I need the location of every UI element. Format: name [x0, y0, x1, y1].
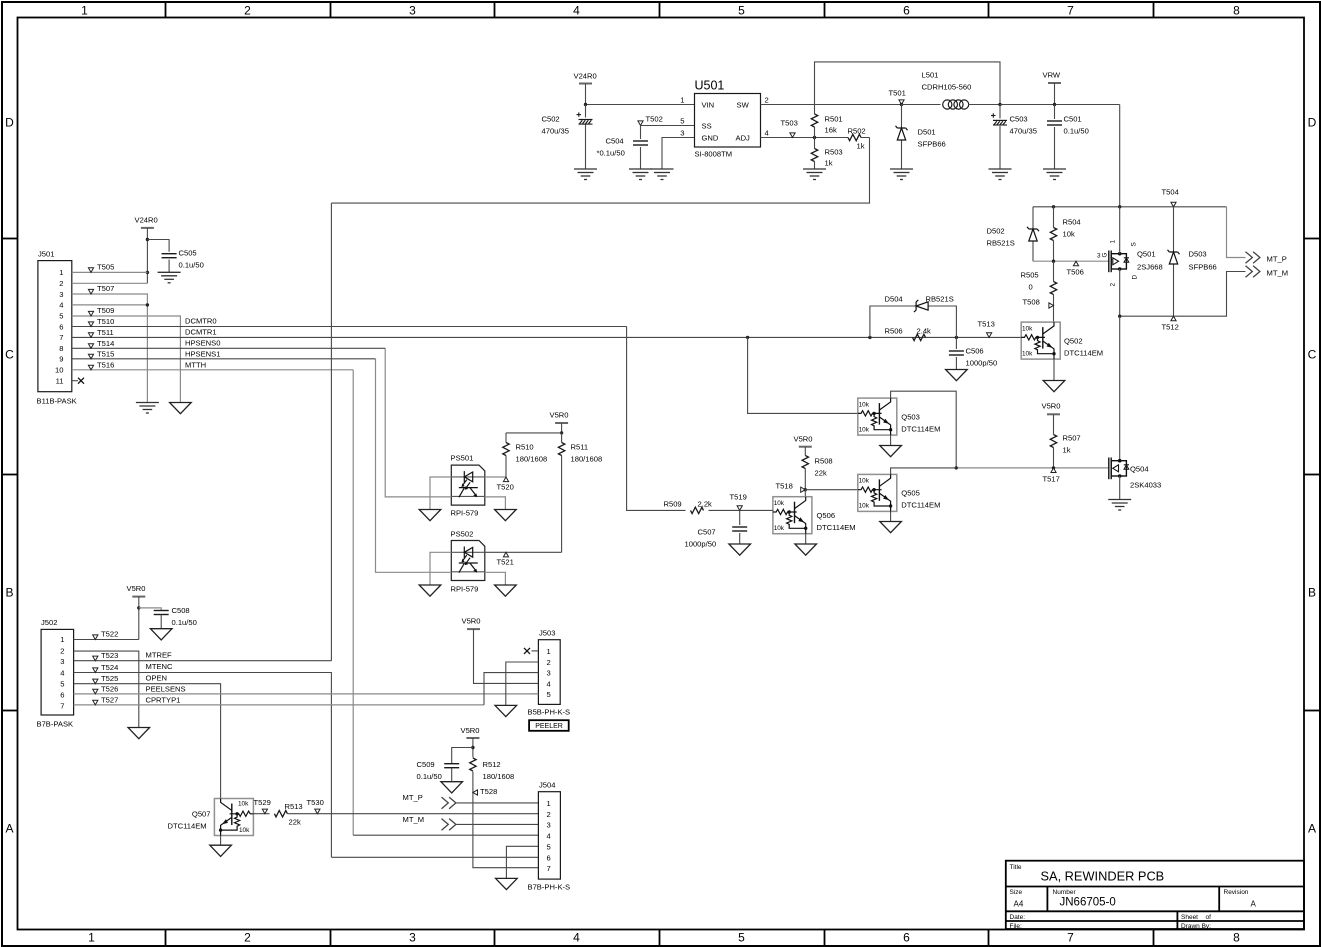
ground [629, 169, 652, 180]
resistor R506 [913, 334, 926, 340]
svg-text:22k: 22k [289, 818, 301, 827]
test point T528 [473, 790, 478, 795]
wire Q503 collector [891, 391, 957, 468]
svg-text:V24R0: V24R0 [135, 216, 158, 225]
svg-text:D: D [1132, 275, 1139, 280]
test point T519 [737, 506, 742, 511]
wire J503 pin3 CPRTYP1 [484, 673, 538, 705]
junction [1118, 205, 1121, 208]
junction [804, 488, 807, 491]
wire R502 to MTREF run [331, 138, 869, 204]
PEELER label box [529, 720, 569, 731]
resistor R508 [804, 447, 806, 490]
svg-text:T507: T507 [97, 284, 114, 293]
svg-text:OPEN: OPEN [146, 674, 168, 683]
svg-text:3: 3 [409, 4, 416, 18]
node T501/D501 [900, 103, 903, 106]
svg-text:0.1u/50: 0.1u/50 [1064, 127, 1089, 136]
svg-text:DTC114EM: DTC114EM [901, 501, 940, 510]
svg-text:MTREF: MTREF [146, 651, 173, 660]
resistor R512 [470, 758, 476, 771]
svg-text:R505: R505 [1021, 271, 1039, 280]
ground [1043, 169, 1066, 180]
svg-text:R512: R512 [483, 760, 501, 769]
svg-text:SA, REWINDER PCB: SA, REWINDER PCB [1041, 869, 1165, 884]
capacitor C506 [955, 337, 957, 369]
diode D503 [1173, 207, 1175, 316]
capacitor C505 [147, 240, 169, 273]
svg-text:R509: R509 [664, 500, 682, 509]
wire J501 pin5 to triangle ground [72, 316, 181, 403]
svg-text:R504: R504 [1063, 218, 1081, 227]
connector J501 [38, 261, 72, 392]
svg-text:MT_M: MT_M [403, 815, 425, 824]
node MT_P chevron [442, 797, 456, 809]
svg-text:C502: C502 [542, 115, 560, 124]
svg-text:A: A [5, 822, 13, 836]
wire VRW down to motor section [1119, 105, 1121, 207]
test point T502 [638, 121, 643, 126]
test point T517 [1051, 468, 1056, 473]
wire Q502 emitter to ground [1053, 359, 1055, 380]
wire V24R0 to VIN [586, 84, 695, 105]
wire J501 pin4 [72, 304, 148, 306]
svg-text:MTENC: MTENC [146, 662, 174, 671]
svg-text:T523: T523 [101, 651, 118, 660]
svg-text:Sheet: Sheet [1181, 914, 1198, 921]
wire ADJ [761, 137, 843, 139]
SECTION: titleblock [1006, 861, 1304, 930]
ground [989, 169, 1012, 180]
svg-text:D: D [1308, 116, 1317, 130]
svg-text:Title: Title [1010, 864, 1022, 871]
node C503 [998, 103, 1001, 106]
svg-text:2: 2 [1110, 283, 1117, 287]
svg-text:7: 7 [547, 864, 551, 873]
junction [1118, 315, 1121, 318]
svg-text:6: 6 [547, 854, 551, 863]
svg-text:of: of [1206, 914, 1212, 921]
svg-text:2: 2 [244, 931, 251, 945]
svg-text:1: 1 [547, 799, 551, 808]
junction [868, 336, 871, 339]
connector J502 [41, 629, 74, 715]
svg-text:DTC114EM: DTC114EM [168, 822, 207, 831]
svg-text:A4: A4 [1014, 900, 1024, 909]
svg-text:HPSENS0: HPSENS0 [185, 339, 220, 348]
transistor Q501 [1097, 207, 1163, 316]
svg-text:T521: T521 [497, 558, 514, 567]
svg-text:1: 1 [547, 647, 551, 656]
svg-text:RPI-579: RPI-579 [451, 509, 479, 518]
svg-text:T502: T502 [646, 115, 663, 124]
svg-text:B7B-PH-K-S: B7B-PH-K-S [528, 883, 571, 892]
svg-text:R503: R503 [825, 148, 843, 157]
svg-text:Q503: Q503 [901, 413, 920, 422]
svg-text:5: 5 [680, 117, 684, 126]
svg-text:PS501: PS501 [451, 454, 474, 463]
wire Q505 collector [891, 468, 957, 475]
svg-text:7: 7 [60, 702, 64, 711]
svg-text:HPSENS1: HPSENS1 [185, 350, 220, 359]
SECTION: photo [376, 348, 603, 596]
capacitor C504 [633, 141, 648, 145]
svg-text:V24R0: V24R0 [574, 72, 597, 81]
svg-text:T506: T506 [1067, 268, 1084, 277]
svg-text:J501: J501 [38, 250, 54, 259]
svg-text:2: 2 [60, 647, 64, 656]
wire feedback sense [815, 62, 1001, 105]
junction [146, 271, 149, 274]
junction [560, 431, 563, 434]
power rail V5R0 above R510/R511 [555, 422, 568, 424]
svg-text:Date:: Date: [1010, 914, 1026, 921]
wire DCMTR0 pin6 [72, 326, 627, 328]
svg-text:T501: T501 [889, 89, 906, 98]
svg-text:J504: J504 [539, 781, 555, 790]
resistor R511 [561, 433, 563, 552]
wire MTENC to J504 pin6 [331, 856, 538, 858]
wire J502 pin1 [74, 639, 139, 641]
svg-text:1000p/50: 1000p/50 [966, 359, 998, 368]
svg-text:B: B [1308, 586, 1316, 600]
svg-text:5: 5 [547, 690, 551, 699]
svg-text:PEELSENS: PEELSENS [146, 685, 186, 694]
svg-text:T511: T511 [97, 328, 114, 337]
svg-text:1: 1 [81, 4, 88, 18]
svg-text:S: S [1131, 242, 1138, 246]
connector J504 [538, 792, 560, 879]
svg-text:10k: 10k [774, 525, 785, 532]
wire C502 leads [585, 105, 587, 170]
svg-text:3: 3 [409, 931, 416, 945]
wire R510/R511 top [506, 432, 562, 434]
wire J502 pin2 to ground [74, 651, 139, 727]
svg-text:1k: 1k [1063, 446, 1071, 455]
svg-text:5: 5 [59, 312, 63, 321]
svg-text:T519: T519 [730, 493, 747, 502]
svg-text:10k: 10k [774, 500, 785, 507]
capacitor C501 [1054, 105, 1056, 170]
svg-text:2: 2 [244, 4, 251, 18]
svg-text:2.4k: 2.4k [917, 327, 932, 336]
junction [955, 466, 958, 469]
wire Q506 emitter [805, 534, 807, 544]
junction [146, 303, 149, 306]
svg-text:RB521S: RB521S [987, 239, 1015, 248]
svg-text:7: 7 [1067, 4, 1074, 18]
wire Q507 base to T529 [253, 813, 269, 815]
svg-text:0.1u/50: 0.1u/50 [172, 618, 197, 627]
capacitor C503 [999, 105, 1001, 170]
svg-text:SW: SW [737, 101, 750, 110]
wire HPSENS0 pin8 [72, 347, 385, 349]
wire DCMTR1 pin7 [72, 336, 627, 338]
svg-text:D504: D504 [885, 295, 903, 304]
svg-text:PEELER: PEELER [535, 723, 563, 730]
wire C504 leads [640, 126, 642, 170]
ground [574, 169, 597, 180]
svg-text:2.2k: 2.2k [698, 500, 713, 509]
svg-text:5: 5 [738, 931, 745, 945]
svg-text:*0.1u/50: *0.1u/50 [597, 149, 625, 158]
svg-text:1: 1 [59, 268, 63, 277]
wire MT_P branch [1227, 207, 1246, 258]
svg-text:10k: 10k [1022, 326, 1033, 333]
wire T518 down to Q506 collector [804, 490, 806, 497]
junction [1052, 205, 1055, 208]
capacitor C502 [577, 112, 593, 124]
test point T512 [1171, 316, 1176, 321]
wire MTENC pin4 [74, 673, 332, 858]
svg-text:T515: T515 [97, 350, 114, 359]
svg-text:3: 3 [547, 669, 551, 678]
wire gate row to Q504 [956, 467, 1109, 469]
svg-text:10k: 10k [1063, 230, 1075, 239]
svg-text:MT_P: MT_P [1267, 255, 1287, 264]
svg-text:C506: C506 [966, 347, 984, 356]
svg-text:T512: T512 [1162, 323, 1179, 332]
svg-text:Drawn By:: Drawn By: [1181, 923, 1211, 930]
svg-text:1: 1 [60, 635, 64, 644]
svg-text:G: G [1102, 253, 1109, 258]
svg-text:T529: T529 [254, 798, 271, 807]
svg-text:File:: File: [1010, 923, 1022, 930]
diode D504 [914, 300, 928, 312]
transistor Q503 [858, 398, 897, 435]
photo interrupter PS501 [451, 465, 485, 505]
wire GND pin [662, 138, 695, 170]
svg-text:B7B-PASK: B7B-PASK [37, 720, 74, 729]
svg-text:10k: 10k [859, 503, 870, 510]
svg-text:J502: J502 [41, 618, 57, 627]
test point T530 [315, 809, 320, 814]
wire rail to VRW [1000, 104, 1120, 106]
wire HPSENS0 entry [385, 348, 451, 497]
SECTION: motor [627, 188, 1288, 511]
svg-text:C503: C503 [1010, 115, 1028, 124]
wire PS501 bottom-right to ground [485, 497, 506, 510]
ground [651, 169, 674, 180]
svg-text:V5R0: V5R0 [461, 726, 480, 735]
svg-text:RPI-579: RPI-579 [451, 585, 479, 594]
svg-text:2: 2 [547, 810, 551, 819]
svg-text:6: 6 [60, 691, 64, 700]
test point T504 [1171, 202, 1176, 207]
capacitor C507 [739, 510, 741, 544]
svg-text:9: 9 [59, 355, 63, 364]
svg-text:T528: T528 [480, 787, 497, 796]
svg-text:MTTH: MTTH [185, 361, 206, 370]
svg-text:MT_M: MT_M [1267, 269, 1289, 278]
svg-text:0.1u/50: 0.1u/50 [417, 772, 442, 781]
wire Q505 emitter [890, 511, 892, 521]
svg-text:6: 6 [903, 4, 910, 18]
svg-text:Q506: Q506 [817, 511, 836, 520]
wire Q503 emitter [890, 435, 892, 445]
wire HPSENS1 entry [376, 359, 452, 573]
junction [1052, 466, 1055, 469]
SECTION: midtrans [627, 327, 958, 556]
svg-text:10k: 10k [859, 427, 870, 434]
svg-text:11: 11 [56, 377, 64, 386]
regulator IC U501 [680, 79, 768, 159]
svg-text:Q502: Q502 [1064, 337, 1083, 346]
SECTION: j502 [37, 584, 539, 857]
svg-text:1: 1 [1110, 240, 1117, 244]
wire OPEN pin5 [74, 684, 221, 799]
svg-text:5: 5 [738, 4, 745, 18]
node V24R0/C502 [584, 103, 587, 106]
svg-text:22k: 22k [815, 469, 827, 478]
svg-text:DCMTR0: DCMTR0 [185, 317, 217, 326]
svg-text:R513: R513 [285, 802, 303, 811]
svg-text:V5R0: V5R0 [127, 584, 146, 593]
junction [137, 606, 140, 609]
svg-text:8: 8 [59, 344, 63, 353]
svg-text:2SJ668: 2SJ668 [1137, 263, 1163, 272]
connector J503 [538, 640, 560, 705]
wire J501 pin3 [72, 294, 148, 403]
svg-text:VRW: VRW [1043, 71, 1061, 80]
power rail V5R0 at R507 [1047, 413, 1060, 415]
svg-text:SFPB66: SFPB66 [1189, 263, 1217, 272]
wire bottom motor rail [1120, 272, 1246, 317]
svg-text:T524: T524 [101, 663, 118, 672]
svg-text:SI-8008TM: SI-8008TM [695, 150, 733, 159]
node ADJ/R501/R503 [813, 136, 816, 139]
test point T520 [503, 477, 508, 482]
svg-text:CDRH105-560: CDRH105-560 [922, 83, 972, 92]
wire PS501 top-left to ground [430, 477, 451, 510]
svg-text:4: 4 [573, 931, 580, 945]
power rail V5R0 at J502 [132, 596, 145, 598]
svg-text:10k: 10k [239, 827, 250, 834]
svg-text:3: 3 [60, 657, 64, 666]
svg-text:1000p/50: 1000p/50 [685, 540, 717, 549]
svg-text:10k: 10k [859, 478, 870, 485]
svg-text:DTC114EM: DTC114EM [1064, 349, 1103, 358]
svg-text:4: 4 [60, 669, 64, 678]
svg-text:2: 2 [547, 658, 551, 667]
svg-text:B: B [5, 586, 13, 600]
svg-text:5: 5 [60, 680, 64, 689]
test point T521 [503, 552, 508, 557]
svg-text:VIN: VIN [702, 101, 715, 110]
resistor R509 [691, 507, 704, 513]
power rail V5R0 at J503 [467, 628, 480, 630]
svg-text:C505: C505 [179, 249, 197, 258]
wire PS502 top-left to ground [430, 552, 451, 585]
svg-text:R511: R511 [571, 443, 589, 452]
svg-text:4: 4 [547, 832, 551, 841]
svg-text:PS502: PS502 [451, 530, 474, 539]
svg-text:GND: GND [702, 134, 719, 143]
wire HPSENS1 pin9 [72, 358, 376, 360]
node MT_P chevron [1246, 252, 1260, 264]
svg-text:180/1608: 180/1608 [571, 455, 603, 464]
inductor L501 [902, 104, 941, 106]
svg-text:5: 5 [547, 843, 551, 852]
resistor R513 [274, 811, 287, 817]
svg-text:2: 2 [59, 279, 63, 288]
test point T529 [262, 809, 267, 814]
resistor R504 [1053, 207, 1055, 261]
resistor R502 [843, 137, 870, 139]
svg-text:T526: T526 [101, 685, 118, 694]
wire gate row [1033, 260, 1109, 262]
power rail V5R0 at R508 [799, 446, 812, 448]
svg-text:Q505: Q505 [901, 489, 920, 498]
svg-text:4: 4 [547, 680, 551, 689]
svg-text:JN66705-0: JN66705-0 [1060, 897, 1116, 909]
svg-text:MT_P: MT_P [403, 793, 423, 802]
test point T506 [1073, 261, 1078, 266]
ground [890, 169, 913, 180]
svg-text:R507: R507 [1063, 434, 1081, 443]
svg-text:470u/35: 470u/35 [1010, 127, 1037, 136]
svg-text:DCMTR1: DCMTR1 [185, 328, 217, 337]
svg-text:3: 3 [1097, 253, 1101, 260]
svg-text:B11B-PASK: B11B-PASK [37, 397, 77, 406]
transistor Q504 [1109, 458, 1161, 490]
photo interrupter PS502 [451, 541, 485, 581]
svg-text:T505: T505 [97, 263, 114, 272]
svg-text:T508: T508 [1023, 298, 1040, 307]
svg-text:DTC114EM: DTC114EM [817, 523, 856, 532]
svg-text:10k: 10k [1022, 351, 1033, 358]
node MT_M chevron [442, 819, 456, 831]
wire MTREF vertical [330, 203, 332, 661]
svg-text:T518: T518 [776, 482, 793, 491]
capacitor C508 [139, 608, 161, 611]
svg-text:R506: R506 [885, 327, 903, 336]
wire D504 bypass [870, 306, 957, 337]
svg-text:1k: 1k [857, 142, 865, 151]
wire SS [641, 125, 695, 127]
svg-text:V5R0: V5R0 [550, 411, 569, 420]
test point T501 [899, 100, 904, 105]
resistor R507 [1053, 414, 1055, 468]
svg-text:C509: C509 [417, 760, 435, 769]
wire MTREF pin3 [74, 660, 332, 662]
junction [746, 336, 749, 339]
resistor R505 [1053, 261, 1055, 322]
svg-text:Number: Number [1053, 889, 1077, 896]
diode D502 [1032, 207, 1034, 261]
wire DCMTR0 down-leg to R509 [627, 327, 686, 511]
node MT_M chevron [1246, 266, 1260, 278]
svg-text:10: 10 [55, 366, 63, 375]
pin11 no-connect [72, 380, 78, 382]
svg-text:T522: T522 [101, 630, 118, 639]
svg-text:Size: Size [1010, 889, 1023, 896]
svg-text:T510: T510 [97, 317, 114, 326]
svg-text:C504: C504 [606, 137, 624, 146]
wire J503 pin5 PEELSENS stub [531, 693, 539, 695]
svg-text:U501: U501 [695, 79, 725, 93]
power rail V24R0 [579, 83, 592, 85]
svg-text:C: C [1308, 348, 1317, 362]
SECTION: j503 [462, 617, 571, 731]
svg-text:C507: C507 [698, 528, 716, 537]
svg-text:T509: T509 [97, 306, 114, 315]
svg-text:C508: C508 [172, 606, 190, 615]
svg-text:Q501: Q501 [1137, 250, 1156, 259]
svg-text:180/1608: 180/1608 [483, 772, 515, 781]
svg-text:2: 2 [765, 96, 769, 105]
ground [729, 544, 751, 555]
